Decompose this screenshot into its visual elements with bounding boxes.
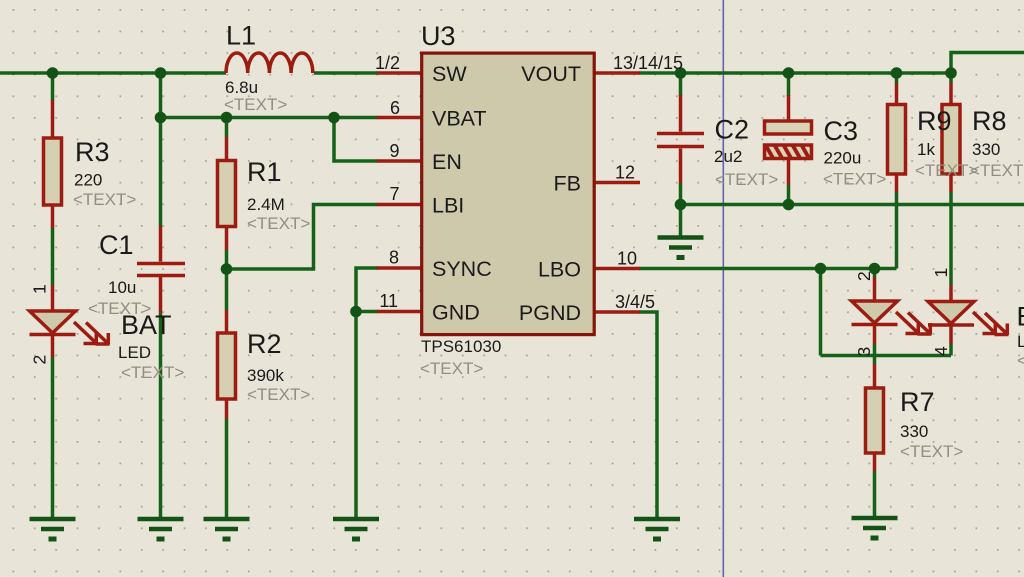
svg-text:U3: U3 <box>421 21 456 51</box>
svg-text:TPS61030: TPS61030 <box>421 337 501 356</box>
wire LBI route <box>227 205 379 270</box>
svg-text:L1: L1 <box>226 21 256 51</box>
svg-text:2: 2 <box>854 271 874 281</box>
wire C3 bottom lead <box>787 185 791 205</box>
svg-text:VBAT: VBAT <box>432 107 487 131</box>
wire LED2 cathode link <box>949 344 953 356</box>
svg-text:10u: 10u <box>108 278 136 297</box>
svg-text:11: 11 <box>379 291 398 311</box>
wire vbat rail <box>161 116 379 120</box>
svg-text:C1: C1 <box>99 230 134 260</box>
svg-text:3: 3 <box>854 347 874 357</box>
svg-text:<TEXT>: <TEXT> <box>900 442 963 461</box>
svg-text:13/14/15: 13/14/15 <box>613 53 683 73</box>
svg-text:<TEXT>: <TEXT> <box>247 385 310 404</box>
ground (GND pin) <box>333 519 379 539</box>
svg-text:LED: LED <box>118 343 151 362</box>
pin SYNC 8 <box>377 266 422 270</box>
wire coil to SW <box>314 71 378 75</box>
wire vbat drop <box>159 73 163 118</box>
wire R3 to LED <box>51 228 55 285</box>
svg-text:LED: LED <box>1017 332 1024 351</box>
wire LED1 cathode link <box>873 344 877 364</box>
wire R1-R2 link <box>225 250 229 310</box>
LED BAT (D left) <box>51 285 55 357</box>
ground (C2 branch) <box>658 238 704 258</box>
svg-text:R7: R7 <box>900 387 935 417</box>
svg-text:6: 6 <box>390 98 400 118</box>
node top-C1 <box>155 67 167 79</box>
wire BAT LED cathode down <box>51 357 55 517</box>
pin LBI 7 <box>377 203 422 207</box>
node vout-C2 <box>675 67 687 79</box>
wire ground rail right <box>681 203 1024 207</box>
svg-text:<TEXT>: <TEXT> <box>1017 351 1024 370</box>
svg-text:<TEXT>: <TEXT> <box>715 170 778 189</box>
svg-text:R3: R3 <box>75 137 110 167</box>
svg-text:10: 10 <box>617 249 637 269</box>
node gndrail-C2 <box>675 199 687 211</box>
wire LED bottom rail <box>821 354 952 358</box>
svg-text:BAT: BAT <box>121 310 172 340</box>
node vbat-R1 <box>221 112 233 124</box>
wire SYNC route <box>356 268 378 312</box>
wire GND pin stub link <box>356 310 378 314</box>
wire GND down <box>354 312 358 518</box>
wire top right corner <box>951 53 1024 74</box>
wire EN branch <box>334 118 378 162</box>
wire R3 top lead <box>51 73 55 100</box>
svg-text:390k: 390k <box>247 366 284 385</box>
svg-text:<TEXT>: <TEXT> <box>247 214 310 233</box>
svg-text:SW: SW <box>432 62 467 86</box>
ground (R7 branch) <box>852 518 898 538</box>
svg-text:C2: C2 <box>715 115 750 145</box>
svg-text:220u: 220u <box>824 149 862 168</box>
svg-text:GND: GND <box>432 301 480 325</box>
svg-text:R9: R9 <box>917 106 952 136</box>
pin VBAT 6 <box>377 116 422 120</box>
node lbo-branch <box>815 263 827 275</box>
wire C2 top lead <box>679 73 683 96</box>
wire top rail left <box>0 71 226 75</box>
svg-text:C3: C3 <box>824 116 859 146</box>
svg-text:4: 4 <box>931 346 951 356</box>
resistor R3 <box>51 100 55 228</box>
svg-text:1/2: 1/2 <box>375 53 400 73</box>
inductor L1 <box>226 53 313 73</box>
resistor R8 <box>949 83 953 192</box>
capacitor C2 <box>679 95 683 183</box>
svg-text:FB: FB <box>554 172 581 196</box>
pin SW 1/2 <box>377 71 422 75</box>
svg-text:R2: R2 <box>247 329 282 359</box>
pin FB 12 <box>594 181 640 185</box>
svg-text:<TEXT>: <TEXT> <box>970 161 1024 180</box>
svg-text:1k: 1k <box>917 140 935 159</box>
resistor R7 <box>873 364 877 471</box>
wire LED branch down <box>819 269 823 356</box>
svg-text:2.4M: 2.4M <box>247 195 285 214</box>
ground (C1 branch) <box>138 519 184 539</box>
svg-text:330: 330 <box>972 140 1000 159</box>
svg-text:EN: EN <box>432 150 462 174</box>
svg-text:VOUT: VOUT <box>521 62 581 86</box>
wire C2 ground stem <box>679 205 683 236</box>
wire C2 bottom lead <box>679 183 683 205</box>
LED D1 right pair first <box>873 277 877 344</box>
ground (R3 branch) <box>30 519 76 539</box>
wire R8 top lead <box>949 73 953 83</box>
wire C1 top lead <box>159 118 163 227</box>
svg-text:SYNC: SYNC <box>432 257 492 281</box>
node top-R3 <box>47 67 59 79</box>
svg-text:2u2: 2u2 <box>714 147 742 166</box>
wire R8 to LED2 <box>949 192 953 285</box>
wire LED1 anode link <box>873 269 877 278</box>
node lbo-LED1 <box>869 263 881 275</box>
svg-text:R1: R1 <box>247 157 282 187</box>
wire LBO rail <box>639 267 897 271</box>
sheet border blue line <box>723 0 725 577</box>
svg-text:<TEXT>: <TEXT> <box>915 161 978 180</box>
resistor R1 <box>225 137 229 250</box>
svg-text:330: 330 <box>900 422 928 441</box>
resistor R9 <box>895 83 899 192</box>
svg-text:2: 2 <box>30 355 50 365</box>
wire R2 bottom to ground <box>225 419 229 517</box>
wire R9 bottom route <box>895 192 899 269</box>
IC U3 TPS61030 <box>422 53 595 335</box>
node vout-R9 <box>891 67 903 79</box>
wire R7 bottom lead <box>873 471 877 517</box>
wire PGND route <box>639 312 657 517</box>
wire C1 bottom down <box>159 313 163 517</box>
wire R1 top lead <box>225 118 229 138</box>
wire R9 top lead <box>895 73 899 83</box>
ground (R2 branch) <box>204 519 250 539</box>
node vout-C3 <box>783 67 795 79</box>
svg-text:9: 9 <box>389 141 399 161</box>
wire C3 top lead <box>787 73 791 96</box>
svg-text:8: 8 <box>389 248 399 268</box>
svg-text:<TEXT>: <TEXT> <box>224 95 287 114</box>
node vbat-C1 <box>155 112 167 124</box>
capacitor C1 <box>159 226 163 313</box>
svg-text:12: 12 <box>615 163 635 183</box>
svg-text:LBI: LBI <box>432 194 464 218</box>
pin VOUT 13/14/15 <box>594 71 640 75</box>
svg-text:<TEXT>: <TEXT> <box>823 170 886 189</box>
pin GND 11 <box>377 310 422 314</box>
svg-text:<TEXT>: <TEXT> <box>73 190 136 209</box>
node vout-R8 <box>945 67 957 79</box>
svg-text:7: 7 <box>389 184 399 204</box>
svg-text:PGND: PGND <box>519 301 581 325</box>
svg-text:3/4/5: 3/4/5 <box>615 292 655 312</box>
capacitor C3 (polarized) <box>787 95 791 185</box>
svg-text:220: 220 <box>74 171 102 190</box>
node gndrail-C3 <box>783 199 795 211</box>
LED D2 right pair second <box>949 285 953 344</box>
svg-text:1: 1 <box>931 268 951 278</box>
pin PGND 3/4/5 <box>594 310 640 314</box>
svg-text:<TEXT>: <TEXT> <box>420 359 483 378</box>
pin LBO 10 <box>594 267 640 271</box>
wire VOUT rail <box>639 71 951 75</box>
node R1-R2-LBI <box>221 263 233 275</box>
node GND-SYNC <box>350 306 362 318</box>
node vbat-EN <box>328 112 340 124</box>
svg-text:1: 1 <box>30 284 50 294</box>
svg-text:<TEXT>: <TEXT> <box>121 363 184 382</box>
svg-text:BAT: BAT <box>1017 302 1024 332</box>
resistor R2 <box>225 310 229 419</box>
pin EN 9 <box>377 159 422 163</box>
svg-text:R8: R8 <box>972 106 1007 136</box>
svg-text:LBO: LBO <box>538 258 581 282</box>
ground (PGND pin) <box>634 519 680 539</box>
